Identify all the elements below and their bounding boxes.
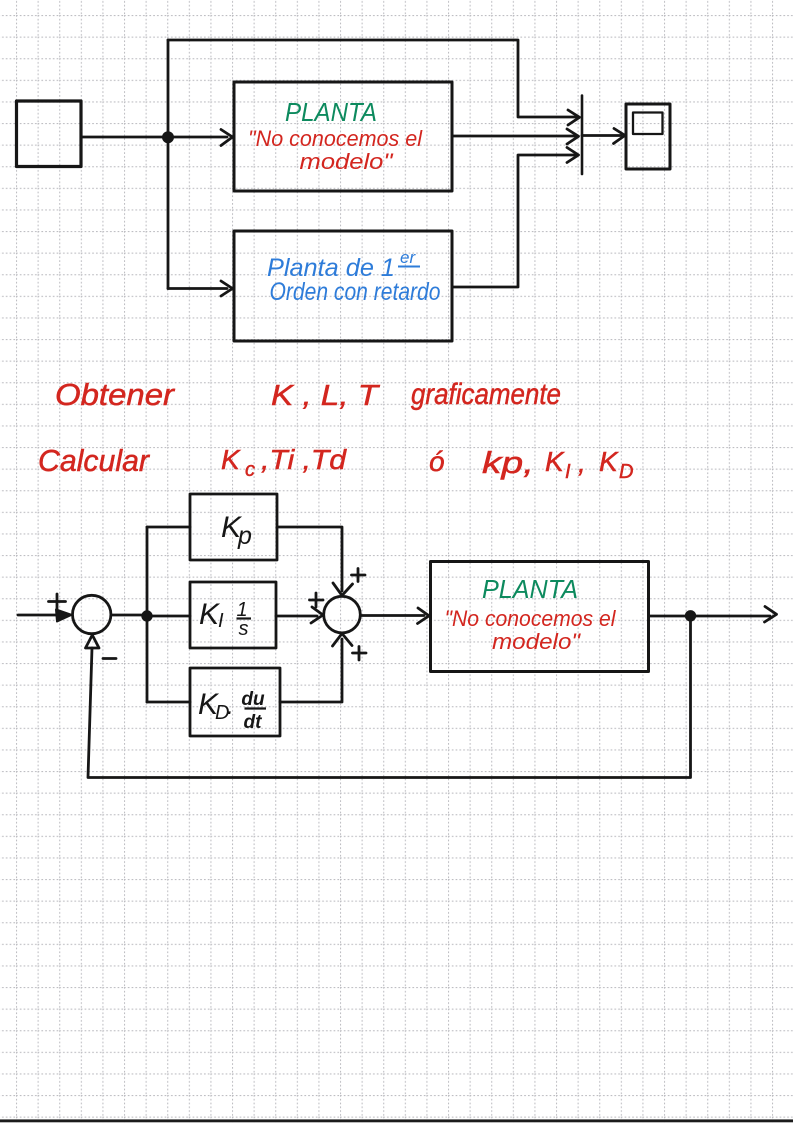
svg-text:s: s	[239, 618, 249, 640]
junction dot output	[686, 612, 695, 621]
arrowhead into sum1	[56, 610, 72, 622]
svg-text:PLANTA: PLANTA	[482, 574, 578, 604]
svg-text:K , L, T: K , L, T	[271, 380, 381, 412]
KI 1/s fraction	[236, 599, 251, 640]
plus sign at sum1 input	[49, 594, 66, 610]
svg-text:D: D	[619, 461, 633, 483]
svg-text:K: K	[599, 446, 619, 477]
svg-text:K: K	[221, 444, 241, 475]
svg-text:,: ,	[578, 447, 586, 478]
wire plant3 to output	[649, 615, 771, 618]
wire sum2 to plant block 3	[361, 614, 425, 617]
mux vertical bar	[581, 96, 584, 175]
plus sign sum2 left	[310, 593, 324, 607]
svg-text:kp,: kp,	[482, 445, 534, 480]
plus sign sum2 top	[352, 569, 366, 582]
source block (step input)	[17, 101, 82, 167]
summing circle 2	[324, 596, 361, 633]
svg-text:PLANTA: PLANTA	[285, 97, 377, 127]
svg-text:ó: ó	[429, 446, 445, 477]
svg-text:Obtener: Obtener	[55, 377, 176, 412]
svg-text:Orden con retardo: Orden con retardo	[270, 278, 441, 306]
KI block label	[199, 598, 224, 632]
scope block	[626, 104, 670, 169]
svg-text:"No conocemos el: "No conocemos el	[445, 606, 617, 631]
svg-text:K: K	[545, 446, 565, 477]
scope screen	[633, 113, 663, 135]
wire Kp out to sum2 top	[277, 527, 342, 591]
wire to Kp block	[147, 526, 190, 529]
KD du/dt fraction	[241, 689, 266, 733]
blue label planta de 1er (block 2)	[267, 248, 420, 282]
arrowhead plant2 wire into mux	[567, 148, 579, 163]
wire into plant block 1	[168, 136, 227, 139]
svg-text:c: c	[245, 459, 255, 481]
arrowhead plant1 wire into mux	[567, 129, 579, 144]
wire trunk to plant block 2	[168, 287, 227, 290]
wire to KI block	[147, 615, 190, 618]
feedback wire	[88, 616, 691, 778]
wire KD out to sum2 bottom	[280, 639, 342, 702]
svg-text:,Ti ,Td: ,Ti ,Td	[261, 444, 348, 475]
output arrowhead	[765, 607, 777, 623]
svg-text:dt: dt	[244, 712, 263, 733]
top bypass wire	[168, 40, 578, 117]
arrowhead into plant block 1	[221, 130, 233, 146]
svg-text:du: du	[241, 689, 265, 710]
summing circle 1	[73, 595, 111, 633]
svg-text:modelo": modelo"	[300, 149, 394, 174]
input wire PID loop	[18, 614, 66, 617]
minus sign at sum1 feedback	[103, 657, 116, 660]
plus sign sum2 bottom	[353, 647, 367, 661]
wire plant1 to mux	[452, 135, 577, 138]
arrowhead into plant block 2	[221, 281, 233, 296]
svg-text:.: .	[227, 693, 234, 720]
wire KI out to sum2 left	[276, 615, 317, 618]
Kp block	[190, 494, 277, 560]
wire mux to scope	[582, 134, 621, 137]
svg-text:I: I	[218, 610, 224, 632]
page bottom edge	[0, 1119, 793, 1122]
trunk vertical wire	[167, 40, 170, 289]
junction dot PID branch	[143, 612, 152, 621]
arrowhead up into sum2 bottom	[333, 634, 353, 647]
svg-text:I: I	[565, 461, 571, 483]
wire plant2 to mux	[452, 155, 577, 287]
red note line 2: Calcular Kc,Ti,Td o Kp,KI,KD	[38, 443, 633, 483]
Kp block label	[221, 511, 252, 550]
plant block 1	[234, 82, 452, 191]
wire to KD block	[147, 701, 190, 704]
svg-text:er: er	[400, 248, 416, 267]
branch trunk vertical	[146, 527, 149, 702]
junction dot source branch	[163, 133, 172, 142]
red note line 1: Obtener K,L,T graficamente	[55, 377, 561, 412]
wire sum1 to junction	[111, 614, 147, 617]
svg-text:"No conocemos el: "No conocemos el	[248, 126, 423, 151]
svg-text:modelo": modelo"	[492, 629, 581, 654]
arrowhead into sum2 left	[311, 607, 323, 623]
feedback arrowhead into sum1 bottom	[86, 635, 100, 648]
arrowhead into mux top	[568, 110, 580, 125]
svg-text:Calcular: Calcular	[38, 443, 151, 478]
wire source to junction	[81, 136, 168, 139]
plant block 2 (first order with delay)	[234, 231, 452, 341]
arrowhead into scope	[614, 129, 626, 144]
svg-text:graficamente: graficamente	[411, 378, 561, 411]
svg-text:p: p	[237, 522, 252, 550]
KI block	[190, 582, 276, 648]
plant block 3	[431, 562, 649, 672]
arrowhead into plant block 3	[418, 608, 430, 624]
KD block	[190, 668, 280, 736]
arrowhead down into sum2 top	[333, 583, 353, 596]
KD block label	[198, 688, 234, 724]
